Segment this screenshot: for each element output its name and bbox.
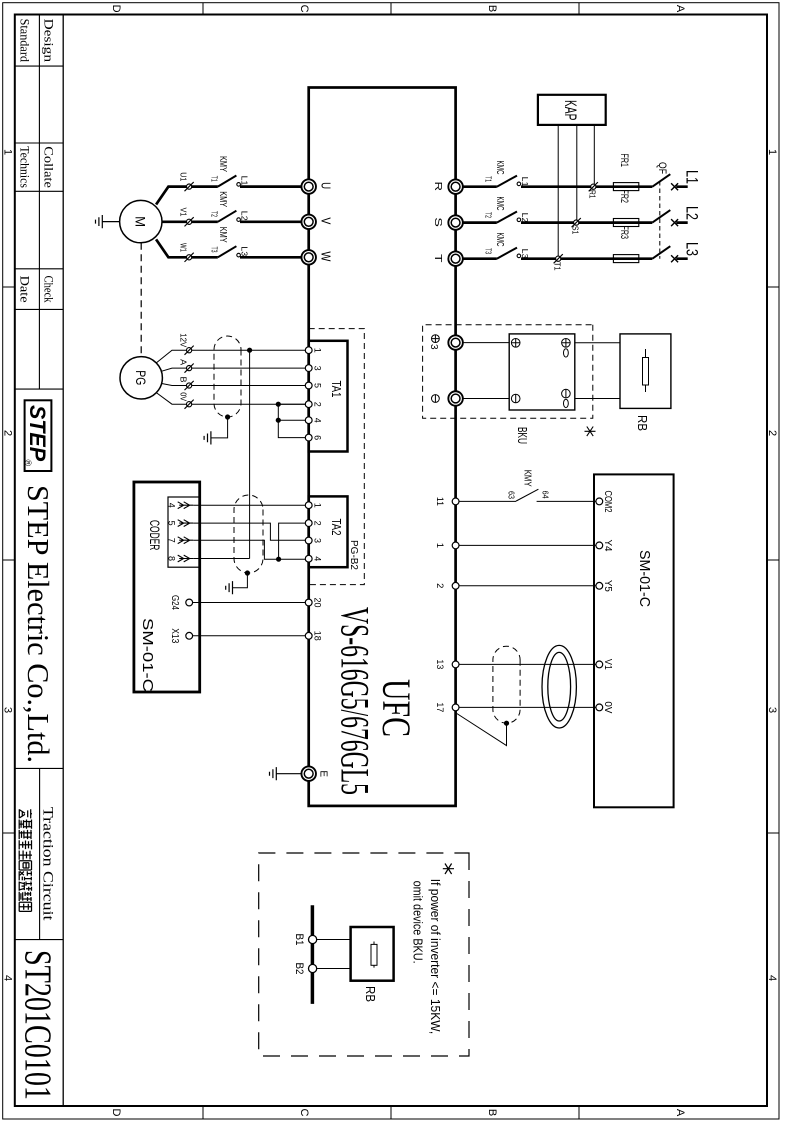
junction on 12V wire bbox=[247, 348, 252, 353]
svg-text:L3: L3 bbox=[520, 249, 529, 260]
wire X13 to 18 bbox=[193, 635, 306, 637]
svg-text:64: 64 bbox=[541, 491, 551, 499]
svg-text:3: 3 bbox=[313, 538, 323, 543]
title block column dividers bbox=[15, 66, 63, 940]
pin Y4 bbox=[596, 542, 603, 549]
zone tick top 1 bbox=[767, 286, 779, 288]
coder shield drain and ground bbox=[245, 570, 250, 575]
TA2 terminal 3 bbox=[305, 537, 312, 544]
TA2 terminal 1 bbox=[305, 502, 312, 509]
svg-text:KMC: KMC bbox=[494, 197, 506, 211]
STEP logo box bbox=[25, 400, 52, 471]
BKU terminal minus top bbox=[562, 389, 571, 407]
ground at motor bbox=[102, 221, 119, 223]
svg-text:Date: Date bbox=[18, 276, 32, 304]
wire 17 to 0V bbox=[459, 706, 596, 708]
zone tick bottom 1 bbox=[3, 286, 15, 288]
RB box note bbox=[351, 927, 394, 981]
svg-text:8: 8 bbox=[167, 556, 177, 561]
svg-text:4: 4 bbox=[313, 556, 323, 561]
terminal B2 bbox=[309, 964, 317, 972]
breaker QF pole 2 bbox=[652, 210, 670, 223]
TA1 terminal 5 bbox=[305, 382, 312, 389]
motor phase V wire bbox=[162, 220, 301, 223]
svg-text:B: B bbox=[486, 5, 498, 12]
pin Y5 bbox=[596, 582, 603, 589]
svg-text:2: 2 bbox=[313, 521, 323, 526]
RB box (braking resistor unit) bbox=[620, 334, 671, 409]
TA1 terminal 3 bbox=[305, 365, 312, 372]
terminal U bbox=[301, 179, 316, 194]
svg-text:5: 5 bbox=[167, 521, 177, 526]
BKU unit box bbox=[509, 334, 575, 410]
svg-text:18: 18 bbox=[313, 631, 323, 641]
tap V1 bbox=[185, 217, 194, 226]
breaker QF pole 3 bbox=[652, 246, 670, 259]
motor phase W wire bbox=[156, 239, 302, 257]
BKU dashed enclosure bbox=[423, 325, 593, 418]
tap S1 bbox=[572, 218, 581, 227]
svg-text:RB: RB bbox=[635, 415, 650, 431]
wire G24 to 20 bbox=[193, 602, 306, 604]
terminal 2 bbox=[452, 582, 459, 589]
zone tick right 3 bbox=[202, 1106, 204, 1119]
svg-text:Y4: Y4 bbox=[602, 540, 613, 552]
wire pin7 to TA2-4 bbox=[193, 540, 305, 559]
wire BKU to RB left bbox=[575, 342, 620, 344]
pin V1 bbox=[596, 661, 603, 668]
svg-text:PG: PG bbox=[133, 370, 149, 385]
KAP box bbox=[538, 95, 606, 125]
svg-text:1: 1 bbox=[313, 348, 323, 353]
svg-text:L3: L3 bbox=[240, 246, 249, 257]
svg-text:Design: Design bbox=[42, 19, 56, 63]
svg-text:B1: B1 bbox=[293, 934, 305, 946]
asterisk note mark bbox=[443, 864, 454, 875]
pin G24 bbox=[186, 599, 193, 606]
KAP lead to S1 bbox=[576, 125, 578, 220]
fuse FR3 bbox=[613, 255, 638, 263]
tap T1 bbox=[554, 254, 563, 263]
svg-text:3: 3 bbox=[428, 344, 439, 350]
resistor RB note bbox=[373, 942, 375, 968]
svg-text:2: 2 bbox=[434, 583, 445, 588]
svg-text:B2: B2 bbox=[293, 963, 305, 975]
svg-text:KMC: KMC bbox=[494, 161, 506, 175]
motor M bbox=[120, 200, 162, 242]
terminal T bbox=[448, 251, 463, 266]
breaker QF linkage dashed bbox=[659, 181, 661, 259]
svg-text:6: 6 bbox=[313, 435, 323, 440]
svg-text:L1: L1 bbox=[683, 170, 702, 184]
phase S supply wire bbox=[463, 221, 688, 224]
wire pin8 riser bbox=[193, 558, 249, 560]
svg-text:T: T bbox=[432, 254, 443, 263]
PG wire B bbox=[162, 384, 306, 386]
svg-text:FR2: FR2 bbox=[618, 190, 630, 204]
asterisk note mark at BKU bbox=[585, 427, 596, 437]
TA1 jumper 2-4-6 bbox=[278, 404, 305, 437]
TA1 terminal 4 bbox=[305, 417, 312, 424]
svg-text:SM-01-C: SM-01-C bbox=[636, 550, 653, 607]
svg-text:4: 4 bbox=[766, 975, 778, 981]
svg-text:FR3: FR3 bbox=[618, 226, 630, 240]
wire +3 to BKU bbox=[463, 342, 510, 344]
PG wire A bbox=[162, 368, 306, 371]
svg-text:4: 4 bbox=[313, 418, 323, 423]
fuse FR1 bbox=[613, 183, 638, 191]
title block row divider bbox=[38, 15, 40, 940]
svg-text:1: 1 bbox=[313, 503, 323, 508]
svg-text:VS-616G5/676GL5: VS-616G5/676GL5 bbox=[333, 607, 378, 795]
svg-text:C: C bbox=[298, 5, 310, 13]
TA1 terminal 1 bbox=[305, 347, 312, 354]
B1 B2 busbar bbox=[311, 905, 315, 1004]
svg-text:2: 2 bbox=[2, 430, 14, 436]
svg-text:U1: U1 bbox=[179, 172, 189, 181]
breaker QF pole 1 bbox=[652, 174, 670, 187]
svg-text:Technics: Technics bbox=[18, 146, 32, 188]
pin X13 bbox=[186, 632, 193, 639]
title block top line bbox=[62, 15, 64, 1107]
svg-text:®: ® bbox=[23, 460, 33, 467]
svg-text:TA2: TA2 bbox=[329, 519, 344, 536]
PG shield drain and ground bbox=[225, 414, 230, 419]
svg-text:KMY: KMY bbox=[522, 470, 534, 487]
KMC contact pole 2 bbox=[497, 212, 517, 223]
tap W1 bbox=[185, 253, 194, 262]
terminal R bbox=[448, 179, 463, 194]
terminal E bbox=[301, 766, 316, 781]
svg-text:KMY: KMY bbox=[217, 156, 229, 172]
wire 13 to V1 bbox=[459, 663, 596, 665]
zone tick left 3 bbox=[202, 3, 204, 15]
svg-text:Y5: Y5 bbox=[602, 580, 613, 592]
svg-text:B: B bbox=[179, 377, 189, 383]
svg-text:Standard: Standard bbox=[18, 19, 32, 63]
svg-text:R1: R1 bbox=[588, 190, 598, 199]
svg-text:ST201C0101: ST201C0101 bbox=[16, 950, 58, 1100]
wire 2 to Y5 bbox=[459, 585, 596, 587]
zone tick top 3 bbox=[767, 832, 779, 834]
svg-text:V1: V1 bbox=[179, 208, 189, 217]
svg-text:13: 13 bbox=[434, 659, 445, 669]
svg-text:T1: T1 bbox=[210, 176, 219, 182]
terminal S bbox=[448, 215, 463, 230]
title Chinese subtitle (pseudo-glyphs) bbox=[19, 809, 32, 911]
zone tick bottom 3 bbox=[3, 832, 15, 834]
SM-01-C coder box left bbox=[134, 482, 200, 692]
svg-text:Collate: Collate bbox=[42, 146, 56, 188]
TA2 terminal 4 bbox=[305, 555, 312, 562]
svg-text:T2: T2 bbox=[210, 211, 219, 217]
phase R supply wire bbox=[463, 185, 688, 188]
svg-text:PG-B2: PG-B2 bbox=[348, 540, 360, 570]
wire junction to coder pin8 bbox=[249, 350, 251, 558]
BKU terminal minus bottom bbox=[511, 394, 520, 403]
zone tick left 2 bbox=[390, 3, 392, 15]
svg-text:0V: 0V bbox=[179, 392, 189, 401]
svg-text:T3: T3 bbox=[210, 247, 219, 253]
TA1 terminal 6 bbox=[305, 434, 312, 441]
svg-text:7: 7 bbox=[167, 538, 177, 543]
svg-text:R: R bbox=[432, 182, 443, 192]
KAP lead to T1 bbox=[557, 125, 559, 257]
svg-text:KMY: KMY bbox=[217, 191, 229, 207]
svg-text:S: S bbox=[432, 217, 443, 227]
UFC bottom terminal 20 bbox=[305, 599, 312, 606]
svg-text:A: A bbox=[674, 1109, 686, 1117]
coder pin 8 bbox=[178, 555, 194, 562]
svg-text:1: 1 bbox=[2, 149, 14, 155]
zone tick right 2 bbox=[390, 1106, 392, 1119]
TA1 terminal 2 bbox=[305, 401, 312, 408]
svg-text:1: 1 bbox=[434, 543, 445, 548]
BKU terminal plus top bbox=[562, 339, 571, 358]
KMC contact pole 1 bbox=[497, 176, 517, 187]
wire B1 to RB bbox=[317, 939, 351, 941]
SM-01-C I/O box right bbox=[594, 474, 674, 807]
wire TA2-2 jumper bbox=[279, 523, 306, 559]
wire pin5 to TA2-3 bbox=[193, 523, 305, 540]
ground at E bbox=[276, 773, 301, 775]
svg-text:CODER: CODER bbox=[147, 520, 163, 550]
svg-text:If power of inverter <= 15KW,: If power of inverter <= 15KW, bbox=[428, 879, 442, 1034]
svg-text:T1: T1 bbox=[484, 176, 493, 182]
BKU terminal plus bottom bbox=[511, 339, 520, 348]
svg-text:D: D bbox=[110, 1109, 122, 1117]
zone tick bottom 2 bbox=[3, 559, 15, 561]
svg-text:E: E bbox=[318, 770, 329, 777]
svg-text:11: 11 bbox=[434, 497, 445, 506]
coder pin 4 bbox=[178, 502, 194, 509]
svg-text:C: C bbox=[298, 1109, 310, 1117]
svg-text:12V: 12V bbox=[179, 333, 189, 347]
svg-text:U: U bbox=[319, 182, 334, 189]
svg-text:SM-01-C: SM-01-C bbox=[139, 618, 156, 692]
terminal 11 bbox=[452, 498, 459, 505]
svg-text:A: A bbox=[674, 5, 686, 13]
svg-text:3: 3 bbox=[766, 707, 778, 713]
pin 0V bbox=[596, 704, 603, 711]
resistor RB bbox=[645, 349, 647, 392]
wire B2 to RB bbox=[317, 968, 351, 970]
svg-text:FR1: FR1 bbox=[618, 154, 630, 168]
svg-text:20: 20 bbox=[313, 598, 323, 608]
svg-text:T3: T3 bbox=[484, 248, 493, 254]
svg-text:W: W bbox=[319, 251, 334, 262]
PG wire 0V bbox=[156, 393, 305, 405]
wire minus to BKU bbox=[463, 398, 510, 400]
wire 1 to Y4 bbox=[459, 544, 596, 546]
KAP lead to R1 bbox=[593, 125, 595, 184]
svg-text:L1: L1 bbox=[520, 177, 529, 188]
svg-text:2: 2 bbox=[766, 430, 778, 436]
PG wire 12V bbox=[156, 350, 305, 363]
KMY contact pole V bbox=[218, 211, 237, 222]
ferrite ring double ellipse bbox=[542, 645, 576, 728]
KMY contact pole W bbox=[218, 246, 237, 257]
svg-text:L2: L2 bbox=[240, 211, 249, 222]
terminal 13 bbox=[452, 661, 459, 668]
terminal W bbox=[301, 250, 316, 265]
terminal +3 bbox=[448, 335, 463, 350]
svg-text:3: 3 bbox=[313, 366, 323, 371]
svg-text:X13: X13 bbox=[169, 628, 180, 643]
tap R1 bbox=[589, 182, 598, 191]
svg-text:Traction Circuit: Traction Circuit bbox=[40, 807, 56, 922]
svg-text:L1: L1 bbox=[240, 176, 249, 187]
svg-text:2: 2 bbox=[313, 402, 323, 407]
svg-text:D: D bbox=[110, 5, 122, 13]
zone tick top 2 bbox=[767, 559, 779, 561]
PG-B2 option card dashed box bbox=[309, 329, 365, 585]
wire pin4 to TA2-1 bbox=[193, 504, 305, 506]
tap U1 bbox=[185, 182, 194, 191]
KMY auxiliary contact 63-64 bbox=[516, 489, 538, 501]
TA2 terminal 2 bbox=[305, 520, 312, 527]
svg-text:KAP: KAP bbox=[561, 100, 580, 120]
terminal 1 bbox=[452, 542, 459, 549]
svg-text:KMC: KMC bbox=[494, 233, 506, 247]
terminal B1 bbox=[309, 935, 317, 943]
fuse FR2 bbox=[613, 219, 638, 227]
TA2 terminal strip box bbox=[309, 496, 348, 567]
svg-text:63: 63 bbox=[507, 491, 517, 499]
svg-text:B: B bbox=[486, 1109, 498, 1116]
svg-text:TA1: TA1 bbox=[329, 381, 344, 398]
svg-text:COM2: COM2 bbox=[602, 491, 613, 513]
svg-text:1: 1 bbox=[766, 149, 778, 155]
zone tick left 1 bbox=[578, 3, 580, 15]
TA1 terminal strip box bbox=[309, 341, 348, 452]
svg-text:QF: QF bbox=[656, 162, 668, 174]
KMY contact pole U bbox=[218, 176, 237, 187]
motor phase U wire bbox=[156, 187, 302, 205]
svg-text:T1: T1 bbox=[552, 262, 562, 271]
shield obround on V1/0V pair bbox=[493, 646, 520, 723]
svg-text:W1: W1 bbox=[179, 243, 189, 252]
svg-text:G24: G24 bbox=[169, 595, 180, 610]
phase T supply wire bbox=[463, 257, 688, 260]
svg-text:0V: 0V bbox=[602, 701, 613, 713]
terminal minus bbox=[448, 391, 463, 406]
svg-text:17: 17 bbox=[434, 702, 445, 712]
coder pin 7 bbox=[178, 537, 194, 544]
svg-text:V: V bbox=[319, 217, 334, 224]
encoder PG bbox=[120, 357, 162, 399]
shield obround on PG wires bbox=[214, 336, 241, 417]
svg-text:RB: RB bbox=[363, 986, 378, 1002]
svg-text:L2: L2 bbox=[520, 213, 529, 224]
svg-text:L2: L2 bbox=[683, 206, 702, 220]
svg-text:3: 3 bbox=[2, 707, 14, 713]
svg-text:KMY: KMY bbox=[217, 227, 229, 243]
shield drain wire to UFC bbox=[504, 721, 509, 726]
svg-text:V1: V1 bbox=[602, 659, 613, 670]
svg-text:S1: S1 bbox=[570, 226, 580, 235]
KMC contact pole 3 bbox=[497, 248, 517, 259]
svg-text:BKU: BKU bbox=[515, 427, 530, 444]
wire BKU to RB right bbox=[575, 398, 620, 400]
coder pin 5 bbox=[178, 520, 194, 527]
svg-text:5: 5 bbox=[313, 383, 323, 388]
svg-text:L3: L3 bbox=[683, 242, 702, 256]
dashed shaft link M to PG bbox=[140, 243, 142, 357]
svg-text:T2: T2 bbox=[484, 212, 493, 218]
svg-text:4: 4 bbox=[167, 503, 177, 508]
note dashed box bbox=[259, 853, 469, 1056]
wire 11 to KMY contact bbox=[459, 500, 516, 502]
svg-text:omit device BKU.: omit device BKU. bbox=[411, 881, 425, 964]
CODER connector box bbox=[168, 497, 200, 567]
svg-text:4: 4 bbox=[2, 975, 14, 981]
UFC bottom terminal 18 bbox=[305, 632, 312, 639]
svg-text:UFC: UFC bbox=[374, 679, 419, 737]
svg-text:A: A bbox=[179, 359, 189, 365]
zone tick right 1 bbox=[578, 1106, 580, 1119]
inverter UFC box bbox=[309, 88, 456, 806]
terminal 17 bbox=[452, 704, 459, 711]
terminal V bbox=[301, 215, 316, 230]
svg-text:Check: Check bbox=[42, 276, 56, 304]
svg-text:STEP Electric Co.,Ltd.: STEP Electric Co.,Ltd. bbox=[21, 485, 56, 763]
shield obround on coder wires bbox=[234, 495, 263, 573]
pin COM2 bbox=[596, 498, 603, 505]
svg-text:M: M bbox=[133, 216, 149, 227]
svg-text:STEP: STEP bbox=[25, 405, 50, 461]
